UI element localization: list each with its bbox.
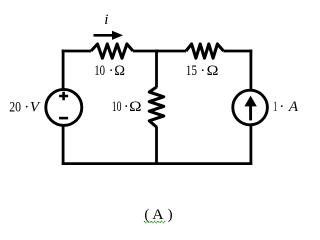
svg-text:): ) [168,207,173,223]
svg-text:·: · [109,63,114,79]
svg-text:A: A [288,99,299,115]
svg-text:·: · [24,100,29,116]
svg-text:1: 1 [273,99,277,115]
current arrow i above R1 [94,34,114,37]
svg-text:·: · [200,63,205,79]
minus sign of V1 [59,117,68,120]
wire middle vertical lower [155,127,158,165]
svg-text:V: V [30,100,41,116]
svg-text:20: 20 [9,100,21,116]
svg-text:·: · [124,99,129,115]
arrow of current source I1 [249,106,252,120]
resistor R2 15 Ohm (top-right horizontal) [186,44,224,58]
wire right vertical upper [249,50,252,90]
resistor R3 10 Ohm (middle vertical) [149,87,163,127]
svg-text:10: 10 [112,99,122,115]
plus sign of V1 [59,92,68,100]
wire top-left segment [62,50,91,53]
wire top-right segment [224,50,253,53]
svg-text:Ω: Ω [114,63,125,79]
svg-text:Ω: Ω [207,63,219,79]
wire middle vertical upper [155,50,158,88]
current source I1 circle [233,90,268,125]
svg-text:A: A [152,207,164,223]
voltage source V1 circle [46,89,82,125]
svg-text:(: ( [144,207,149,223]
wire top-middle segment [133,50,186,53]
svg-text:15: 15 [186,63,197,79]
spellcheck squiggle under caption [144,221,165,223]
resistor R1 10 Ohm (top-left horizontal) [91,44,133,58]
svg-text:10: 10 [94,63,105,79]
wire left vertical upper [62,50,65,90]
svg-text:Ω: Ω [129,99,141,115]
wire right vertical lower [249,126,252,165]
svg-text:·: · [279,99,284,115]
wire bottom [62,162,252,165]
wire left vertical lower [62,126,65,165]
svg-text:i: i [104,12,108,28]
